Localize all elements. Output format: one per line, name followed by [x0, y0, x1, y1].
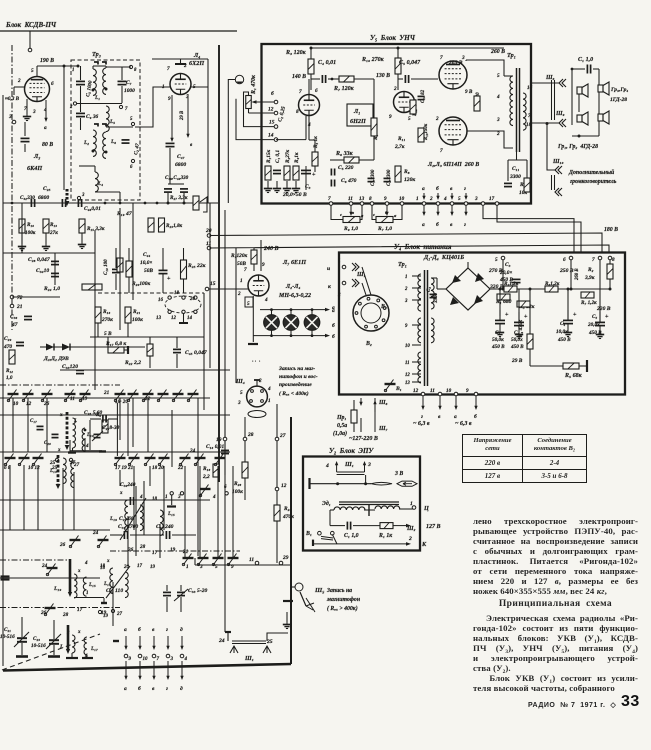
- terminal УНЧ bottom 10: [400, 202, 404, 206]
- wire left loop: [329, 510, 331, 526]
- svg-text:4: 4: [212, 495, 216, 500]
- terminal 19: [223, 437, 227, 441]
- switch contact row1: [7, 390, 18, 402]
- wire 15 to Л7 grid: [209, 288, 248, 290]
- svg-text:190 В: 190 В: [40, 58, 54, 64]
- wire lower zone vertical: [133, 466, 135, 530]
- svg-text:28: 28: [247, 432, 254, 438]
- resistor R4 470к: [527, 334, 533, 349]
- svg-text:3: 3: [474, 196, 478, 202]
- svg-text:18: 18: [100, 564, 106, 569]
- svg-text:1: 1: [165, 494, 168, 500]
- wire Л4 pin5 right: [191, 86, 208, 88]
- svg-text:Ш₁₀: Ш₁₀: [552, 159, 564, 165]
- terminal питания top: [501, 256, 505, 260]
- wire С21 arrow: [14, 632, 29, 647]
- svg-text:3: 3: [237, 400, 241, 406]
- svg-text:26: 26: [43, 401, 50, 407]
- svg-text:1: 1: [338, 258, 341, 264]
- wire 25 to border: [267, 633, 288, 641]
- svg-text:R₂27к: R₂27к: [285, 150, 291, 163]
- svg-text:21: 21: [103, 390, 110, 396]
- capacitor С46 0,01: [78, 199, 81, 207]
- wire cap top: [567, 310, 569, 320]
- ground R13: [42, 244, 50, 251]
- ground cap: [564, 330, 572, 337]
- svg-text:9: 9: [231, 564, 234, 570]
- terminal 6 mid: [225, 492, 228, 495]
- wire main bus y203: [3, 202, 218, 204]
- wire Тр2 tap 12: [412, 373, 421, 375]
- svg-text:3: 3: [496, 117, 500, 123]
- terminal питания bottom 12: [421, 392, 425, 396]
- ground cap: [596, 332, 604, 339]
- plug symbol 24: [230, 646, 238, 653]
- svg-text:12: 12: [268, 107, 274, 113]
- terminal УНЧ bottom 13: [360, 202, 364, 206]
- svg-text:Запись на маг-: Запись на маг-: [278, 366, 315, 372]
- wire С23 bottom leg: [53, 645, 55, 655]
- svg-text:450 В: 450 В: [557, 337, 571, 343]
- contact Ш4 b: [261, 390, 264, 393]
- wire lamp top lead: [271, 310, 273, 315]
- svg-text:L₄: L₄: [97, 181, 103, 187]
- resistor R2 3,9к: [607, 264, 613, 279]
- capacitor С33 5-20: [177, 592, 185, 595]
- svg-text:Ш₉: Ш₉: [555, 111, 565, 117]
- wire L4 out: [95, 191, 120, 193]
- svg-text:1: 1: [72, 68, 74, 73]
- svg-text:2: 2: [337, 292, 341, 298]
- terminal 20: [207, 234, 211, 238]
- wire terminal 3 to питания 6: [483, 205, 574, 252]
- wire bus row2: [0, 451, 230, 453]
- wire arrow в: [438, 396, 441, 410]
- wire lower zone vertical: [184, 466, 186, 558]
- terminal 1 mid: [170, 492, 173, 495]
- switch contact 24 corner: [46, 564, 57, 576]
- terminal 27 low: [111, 609, 114, 612]
- svg-text:12: 12: [26, 401, 32, 407]
- svg-text:R₄1к: R₄1к: [294, 152, 300, 163]
- wire plate feed Л2: [466, 60, 504, 76]
- wire lower zone vertical: [199, 466, 201, 558]
- terminal 21: [10, 304, 14, 308]
- svg-text:С₄: С₄: [560, 321, 565, 327]
- svg-text:+: +: [312, 172, 316, 178]
- wire Ш1 to В2 b: [362, 283, 366, 295]
- wire gang dashed link: [2, 634, 100, 670]
- wire С21 bottom leg: [21, 643, 23, 655]
- svg-text:R₇ 1,2к: R₇ 1,2к: [581, 300, 597, 306]
- terminal top: [28, 48, 32, 52]
- contact В2 4: [383, 307, 386, 310]
- resistor R1 470к potentiometer: [246, 96, 252, 109]
- svg-text:и: и: [327, 266, 330, 272]
- resistor R7 1,0 heater: [376, 217, 393, 223]
- svg-text:С₂₅: С₂₅: [43, 186, 51, 192]
- wire С28 out: [108, 418, 118, 420]
- svg-text:2: 2: [69, 105, 73, 110]
- wire dashdot y385: [0, 384, 120, 386]
- svg-text:а: а: [44, 125, 47, 131]
- svg-text:б: б: [436, 221, 439, 228]
- wire В1 link a: [321, 536, 333, 538]
- wire plate1 up: [308, 79, 310, 94]
- svg-text:27к: 27к: [49, 230, 58, 236]
- ground R10: [18, 244, 26, 251]
- svg-text:С₃₆: С₃₆: [10, 314, 17, 320]
- resistor R5 1,2к: [504, 286, 517, 292]
- wire speaker left vertical: [571, 69, 573, 125]
- wire Ш6 lead down: [359, 398, 362, 406]
- terminal УНЧ bottom 3: [481, 202, 485, 206]
- wire lower zone vertical: [62, 468, 64, 530]
- capacitor С8 3300: [384, 178, 391, 181]
- svg-text:L₁₅: L₁₅: [167, 511, 175, 517]
- svg-text:20: 20: [189, 297, 196, 302]
- tube Л7 6Е1П indicator: [248, 275, 269, 296]
- wire plate feed Л3: [467, 131, 513, 148]
- svg-text:С₂₉: С₂₉: [4, 336, 11, 342]
- svg-text:2,7к: 2,7к: [394, 144, 405, 150]
- text column right: [473, 516, 638, 693]
- wire top bus Л4: [152, 58, 208, 60]
- resistor R7 120к mid: [251, 250, 257, 264]
- svg-text:3: 3: [404, 299, 408, 304]
- svg-text:В₁: В₁: [305, 531, 312, 537]
- wire 28: [244, 417, 246, 437]
- wire lower zone vertical: [159, 524, 161, 558]
- inductor L14: [71, 462, 74, 488]
- wire to pin 15: [244, 92, 277, 127]
- inductor L15: [160, 510, 163, 536]
- wire cap row a: [110, 534, 122, 536]
- svg-text:28: 28: [62, 612, 69, 618]
- svg-text:+: +: [605, 314, 609, 320]
- svg-text:220 В: 220 В: [596, 306, 611, 312]
- svg-text:12: 12: [413, 388, 419, 394]
- wire R4 to R5: [529, 349, 531, 366]
- wire vertical x144: [143, 481, 145, 535]
- inductor L lower left: [72, 635, 75, 653]
- switch contact row2: [179, 454, 190, 466]
- svg-text:б: б: [138, 626, 141, 633]
- svg-text:R₂₇ 3,3к: R₂₇ 3,3к: [170, 195, 188, 201]
- wire vertical x172b: [171, 410, 173, 467]
- wire jack 24-25 b: [232, 643, 266, 645]
- svg-text:12: 12: [171, 316, 177, 321]
- wire coil bottom bar a: [66, 657, 78, 659]
- svg-text:Эд₁: Эд₁: [322, 500, 331, 507]
- wire R3 top: [310, 48, 312, 59]
- terminal УНЧ 14: [274, 138, 278, 142]
- terminal Ш1 pin 1: [342, 265, 346, 269]
- svg-text:С₂₀: С₂₀: [44, 441, 51, 446]
- wire coil bottoms: [74, 597, 104, 599]
- wire lower zone vertical: [69, 440, 71, 452]
- svg-text:10-516: 10-516: [0, 634, 15, 640]
- svg-text:1: 1: [268, 398, 271, 404]
- connector Ш8: [559, 79, 566, 87]
- wire lamp bottom lead: [290, 330, 292, 335]
- block У5 Блок УНЧ outline: [262, 44, 532, 204]
- svg-text:L₁: L₁: [94, 95, 100, 101]
- tube Л1 6Н2П triode 2: [394, 92, 415, 113]
- wire pot wiper arrow: [252, 100, 277, 104]
- capacitor С6 470: [331, 180, 334, 187]
- svg-text:к: к: [328, 284, 331, 290]
- wire dashdot y607: [0, 607, 120, 609]
- svg-text:3: 3: [81, 193, 85, 198]
- svg-text:С₁ 0,1: С₁ 0,1: [275, 150, 281, 163]
- wire lower zone vertical: [23, 465, 25, 530]
- terminal Ш1 pin 2: [342, 281, 346, 285]
- svg-text:4: 4: [325, 463, 329, 469]
- transformer Тр2 winding 2: [418, 318, 421, 343]
- resistor divider R&#8322;27к: [284, 166, 290, 180]
- contact Ш4 a: [251, 390, 254, 393]
- ground divider: [264, 186, 272, 193]
- resistor R25 22к: [181, 260, 187, 279]
- svg-text:R₁ 1к: R₁ 1к: [378, 533, 393, 539]
- wire heater R7 in: [372, 205, 376, 220]
- svg-text:г: г: [421, 414, 423, 420]
- transformer Тр3 core marks middle: [94, 124, 106, 127]
- svg-text:L₅: L₅: [109, 119, 115, 125]
- resistor R21 100к: [125, 307, 131, 323]
- svg-text:С₁: С₁: [495, 330, 500, 336]
- wire lower zone vertical: [147, 398, 149, 452]
- svg-text:R₄ 470к: R₄ 470к: [518, 320, 524, 337]
- svg-text:R₇ 1,0: R₇ 1,0: [377, 226, 392, 232]
- svg-text:127 В: 127 В: [426, 524, 441, 530]
- capacitor С7 3300: [368, 178, 375, 181]
- svg-text:С₃₄10: С₃₄10: [36, 268, 49, 274]
- wire arrow б down1: [138, 636, 141, 650]
- svg-text:В₂: В₂: [365, 341, 372, 347]
- wire arrow а down2: [124, 661, 127, 680]
- wire v22: [21, 203, 23, 253]
- resistor R6 33к: [344, 157, 359, 163]
- svg-text:~127-220 В: ~127-220 В: [349, 436, 378, 442]
- capacitor filler lower2: [52, 434, 59, 437]
- capacitor С44 electrolytic: [159, 270, 168, 273]
- wire bus y565: [195, 564, 291, 566]
- capacitor С24 110: [163, 592, 171, 595]
- wire vertical x117: [116, 403, 118, 456]
- svg-text:С₃₀240: С₃₀240: [120, 482, 136, 488]
- wire 24 stem: [227, 632, 229, 641]
- svg-text:13: 13: [359, 196, 365, 202]
- wire Тр2 tap 10: [412, 344, 421, 346]
- wire terminal 6 down: [570, 260, 572, 289]
- connector Ш1 pin1 plug: [352, 263, 359, 271]
- wire R7 bottom: [253, 264, 255, 271]
- junction B+ R3: [310, 47, 313, 50]
- resistor R24 1,0: [82, 284, 102, 290]
- terminal УНЧ 12: [274, 111, 278, 115]
- svg-text:Ш₆: Ш₆: [545, 75, 555, 81]
- svg-text:130 В: 130 В: [376, 73, 390, 79]
- svg-text:270к: 270к: [101, 317, 113, 323]
- svg-text:б: б: [332, 333, 335, 340]
- wire heater R9 in: [331, 205, 343, 220]
- svg-text:10-516: 10-516: [31, 643, 46, 649]
- wire Л3 grid in: [14, 86, 25, 88]
- wire lower zone vertical: [12, 398, 14, 452]
- capacitor corner filler: [1, 576, 10, 579]
- svg-text:R₂₁: R₂₁: [132, 309, 140, 315]
- wire dashed y293: [98, 292, 204, 294]
- svg-text:18: 18: [174, 291, 180, 296]
- wire shield pair b: [337, 474, 365, 476]
- speaker Гр4 1ГД-28: [577, 112, 588, 125]
- wire v95: [94, 230, 96, 390]
- svg-text:Д₁-Д₄ КЦ401Б: Д₁-Д₄ КЦ401Б: [423, 254, 464, 261]
- svg-text:С₃₃ 5-20: С₃₃ 5-20: [188, 588, 207, 594]
- svg-text:1: 1: [86, 591, 89, 596]
- wire С21 top leg: [21, 617, 23, 637]
- svg-text:5: 5: [495, 257, 498, 263]
- wire Ш7 lead up: [373, 400, 376, 432]
- svg-text:6Н2П: 6Н2П: [350, 118, 366, 125]
- svg-text:С₁ 1,0: С₁ 1,0: [578, 57, 593, 63]
- svg-text:х: х: [77, 569, 81, 574]
- contact Ш4 d: [261, 400, 264, 403]
- capacitor filler lower1: [37, 426, 44, 429]
- wire long vertical x208: [207, 59, 209, 203]
- wire arrow д down2: [180, 661, 183, 680]
- resistor R13 27к: [43, 219, 49, 233]
- wire y297: [12, 296, 60, 298]
- svg-text:R₂₂ 2,2: R₂₂ 2,2: [124, 360, 141, 366]
- wire R1 to Ш2 arrow: [393, 524, 411, 528]
- svg-text:20,0х: 20,0х: [587, 322, 600, 328]
- svg-text:11: 11: [249, 557, 254, 563]
- svg-text:2: 2: [429, 196, 433, 202]
- svg-text:Тр₁: Тр₁: [507, 52, 516, 59]
- wire R9 top: [373, 79, 375, 118]
- svg-text:С₄₄: С₄₄: [143, 252, 150, 258]
- wire divider to ground: [276, 181, 278, 186]
- connector Ш4 shield ellipse: [248, 411, 266, 418]
- terminal 3: [166, 654, 170, 658]
- contact В2 5: [377, 299, 380, 302]
- contact В2 1: [382, 319, 385, 322]
- svg-text:нитофон и вос-: нитофон и вос-: [279, 373, 318, 380]
- resistor R17 potentiometer: [193, 196, 199, 210]
- svg-text:Л₂,Л₃ 6П14П 260 В: Л₂,Л₃ 6П14П 260 В: [427, 162, 479, 168]
- svg-text:г: г: [166, 686, 168, 692]
- terminal УНЧ 15: [274, 125, 278, 129]
- svg-text:7: 7: [592, 257, 595, 263]
- svg-text:С₃: С₃: [305, 184, 311, 190]
- svg-text:С₄₆0,01: С₄₆0,01: [84, 206, 101, 212]
- capacitor С5 220: [331, 169, 334, 176]
- svg-text:С₃₉,С₄₀330: С₃₉,С₄₀330: [165, 175, 189, 181]
- svg-text:R₁₂: R₁₂: [6, 368, 13, 374]
- svg-text:С₅ 220: С₅ 220: [338, 165, 354, 171]
- lamp Л4 МН-6,3: [304, 315, 320, 331]
- wire Тр2 tap 11: [412, 361, 421, 363]
- junction tap1: [77, 65, 80, 68]
- wire arrow д down1: [180, 636, 183, 650]
- svg-text:~ 6,3 в: ~ 6,3 в: [455, 421, 472, 427]
- resistor R1 680: [497, 294, 510, 300]
- resistor R7 1,2к: [581, 292, 594, 298]
- svg-text:7: 7: [440, 148, 443, 154]
- wire Ш10 cable b: [554, 175, 556, 190]
- svg-text:Л₄: Л₄: [193, 52, 200, 59]
- wire left T bar: [308, 478, 310, 489]
- svg-text:С₁ 1,0: С₁ 1,0: [344, 533, 359, 539]
- svg-text:22: 22: [144, 396, 151, 402]
- svg-text:11: 11: [430, 388, 435, 394]
- wire tap2 row: [77, 103, 122, 105]
- svg-text:14: 14: [187, 316, 193, 321]
- svg-text:R₁₀: R₁₀: [27, 222, 34, 228]
- contact В1 b: [331, 531, 335, 535]
- svg-text:7: 7: [167, 66, 170, 72]
- resistor R9 150к: [371, 118, 377, 136]
- ground divider: [292, 186, 300, 193]
- svg-text:1,0: 1,0: [6, 375, 13, 381]
- wire С25 trimmer arrow: [92, 431, 103, 441]
- transformer Тр3 dashed box: [71, 60, 140, 200]
- wire L core slug arrow 2: [66, 625, 70, 654]
- svg-text:24: 24: [189, 448, 196, 454]
- capacitor С23 variable: [49, 640, 59, 644]
- terminal питания top: [569, 256, 573, 260]
- contact 18: [182, 296, 185, 299]
- svg-text:470: 470: [3, 344, 12, 350]
- capacitor С40 330: [180, 189, 188, 192]
- terminal 5: [131, 122, 134, 125]
- svg-text:3 В: 3 В: [394, 471, 403, 477]
- svg-text:( Rₒₓ > 400к): ( Rₒₓ > 400к): [327, 605, 358, 612]
- svg-text:произведение: произведение: [279, 381, 312, 388]
- svg-text:д: д: [180, 626, 183, 633]
- switch contact row2: [144, 454, 155, 466]
- junction 190В node: [63, 65, 66, 68]
- wire Ш1 left arrow up: [335, 461, 338, 472]
- capacitor С47 6800: [166, 143, 175, 146]
- capacitor С27 low: [124, 531, 127, 539]
- svg-text:265 В: 265 В: [448, 60, 463, 66]
- svg-text:R₆1,2к: R₆1,2к: [545, 281, 560, 287]
- svg-text:72: 72: [17, 295, 23, 301]
- wire 11 bus to питания 8: [209, 245, 609, 252]
- svg-text:5 В: 5 В: [104, 331, 112, 337]
- terminal 27 mid: [69, 458, 72, 461]
- svg-text:260 В: 260 В: [575, 268, 580, 281]
- svg-text:R₅ 68к: R₅ 68к: [564, 373, 583, 379]
- svg-text:2: 2: [496, 131, 500, 137]
- switch contact row2: [32, 454, 43, 466]
- svg-text:29: 29: [282, 555, 289, 561]
- inductor L1: [93, 69, 96, 95]
- svg-text:( Rₒₓ < 400к): ( Rₒₓ < 400к): [279, 390, 309, 397]
- wire to output grid: [411, 78, 438, 80]
- svg-text:Ш₂: Ш₂: [406, 526, 416, 532]
- wire 240В node down: [260, 240, 262, 271]
- wire v210: [209, 203, 211, 368]
- wire Л4 top lead: [180, 59, 182, 64]
- wire lower zone vertical: [9, 465, 11, 530]
- switch contact row1: [187, 390, 198, 402]
- transformer Тр2 core 2: [427, 270, 429, 386]
